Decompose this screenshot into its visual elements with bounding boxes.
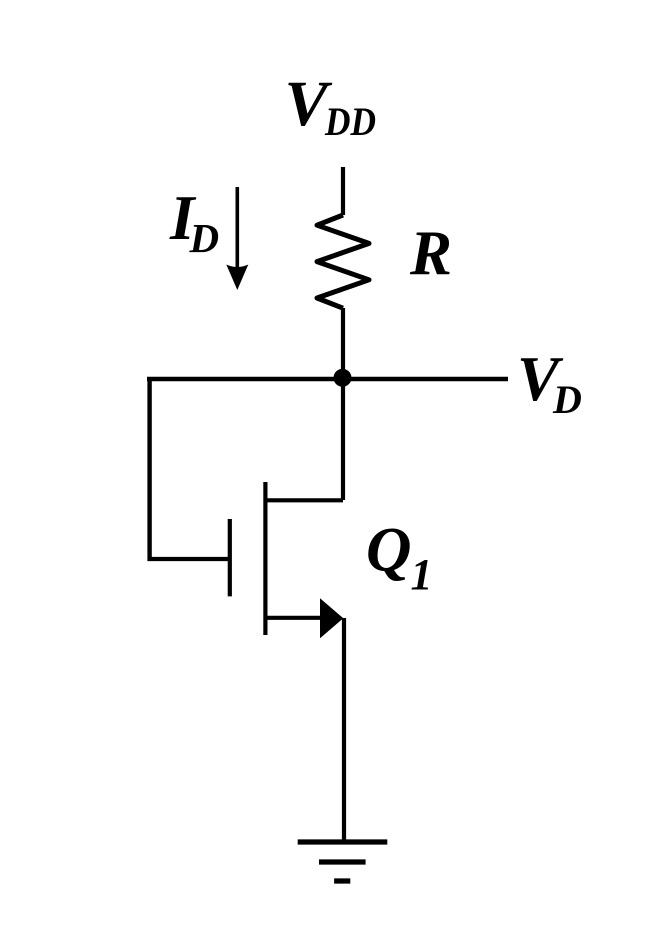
- ground: [298, 842, 388, 881]
- Q1 drain lead: [265, 498, 343, 502]
- node junction: [334, 369, 352, 387]
- wire left vertical to gate: [147, 377, 151, 561]
- wire source to ground: [342, 618, 346, 842]
- Q1 channel bar: [263, 482, 267, 635]
- transistor Q1: [230, 482, 343, 638]
- wire VDD to resistor: [341, 167, 345, 215]
- svg-text:1: 1: [411, 550, 433, 599]
- svg-text:DD: DD: [324, 99, 376, 144]
- svg-text:R: R: [409, 218, 452, 288]
- svg-text:D: D: [189, 215, 220, 261]
- net label VD: [517, 344, 582, 422]
- net label VDD: [285, 68, 377, 144]
- Q1 gate bar: [228, 519, 232, 596]
- Q1 source arrow: [320, 598, 343, 638]
- wire resistor to node: [341, 308, 345, 377]
- label ID: [169, 183, 219, 261]
- wire node horizontal: [147, 377, 508, 381]
- svg-text:Q: Q: [366, 515, 412, 585]
- wire node down to drain: [341, 377, 345, 500]
- Q1 source lead: [265, 616, 330, 620]
- current arrow ID: [226, 187, 248, 290]
- svg-text:D: D: [552, 377, 582, 422]
- label Q1: [366, 515, 433, 600]
- wire gate horizontal: [148, 557, 231, 561]
- resistor R: [317, 215, 369, 308]
